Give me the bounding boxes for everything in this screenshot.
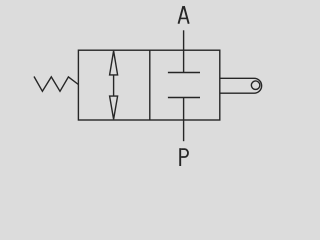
port label P <box>180 148 188 166</box>
spring return (left actuator) <box>34 77 78 92</box>
right cell: blocked port P (bottom T) vertical <box>183 98 185 142</box>
plunger / roller actuator body (right) <box>220 78 262 93</box>
valve body (two-position box) <box>78 50 219 120</box>
right cell: blocked port A (top T) bar <box>168 72 200 74</box>
left cell: flow arrow up head <box>110 51 118 75</box>
left cell: flow arrow down head <box>110 96 118 119</box>
right cell: blocked port A (top T) vertical <box>183 30 185 72</box>
position divider <box>149 50 151 120</box>
port label A <box>179 6 189 24</box>
right cell: blocked port P (bottom T) bar <box>168 97 200 99</box>
left cell: arrow shaft <box>113 75 115 96</box>
roller circle <box>251 81 260 90</box>
